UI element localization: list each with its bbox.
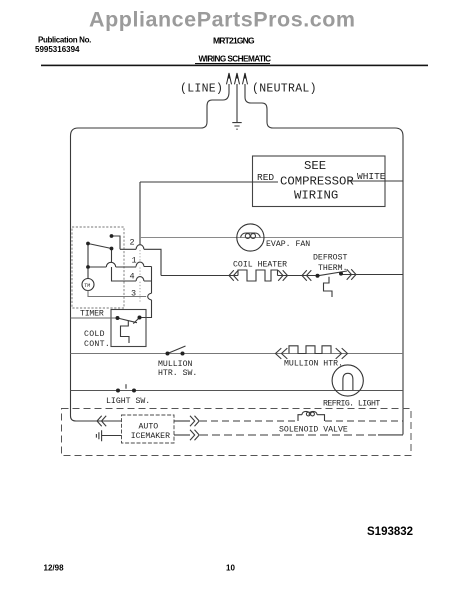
svg-text:MRT21GNG: MRT21GNG (213, 36, 255, 46)
svg-text:3: 3 (131, 289, 136, 299)
svg-text:WIRING SCHEMATIC: WIRING SCHEMATIC (199, 55, 272, 64)
svg-text:TM: TM (84, 283, 90, 289)
svg-text:(LINE): (LINE) (180, 83, 223, 96)
svg-text:MULLION HTR.: MULLION HTR. (284, 360, 343, 369)
svg-text:WHITE: WHITE (357, 171, 386, 182)
svg-text:WIRING: WIRING (294, 189, 338, 203)
svg-text:AppliancePartsPros.com: AppliancePartsPros.com (89, 8, 356, 32)
svg-text:10: 10 (226, 564, 235, 573)
svg-text:ICEMAKER: ICEMAKER (131, 432, 170, 441)
svg-text:SOLENOID VALVE: SOLENOID VALVE (279, 426, 348, 435)
svg-text:DEFROST: DEFROST (313, 254, 347, 263)
svg-text:5995316394: 5995316394 (35, 45, 80, 54)
svg-text:COMPRESSOR: COMPRESSOR (280, 175, 354, 189)
svg-text:REFRIG. LIGHT: REFRIG. LIGHT (323, 400, 380, 409)
svg-text:TIMER: TIMER (80, 310, 104, 319)
svg-text:HTR. SW.: HTR. SW. (158, 369, 197, 378)
svg-text:4: 4 (130, 272, 135, 282)
svg-text:RED: RED (257, 172, 274, 183)
svg-text:1: 1 (132, 256, 137, 266)
svg-text:Publication No.: Publication No. (38, 36, 91, 45)
svg-text:SEE: SEE (304, 159, 326, 173)
svg-text:THERM.: THERM. (318, 264, 347, 273)
svg-text:LIGHT SW.: LIGHT SW. (106, 397, 150, 406)
svg-text:S193832: S193832 (367, 526, 413, 538)
svg-text:COLD: COLD (84, 330, 105, 339)
svg-text:COIL HEATER: COIL HEATER (233, 261, 287, 270)
svg-text:2: 2 (130, 238, 135, 248)
svg-text:(NEUTRAL): (NEUTRAL) (252, 83, 317, 96)
svg-text:EVAP. FAN: EVAP. FAN (266, 240, 310, 249)
svg-text:AUTO: AUTO (139, 423, 159, 432)
svg-text:12/98: 12/98 (44, 564, 65, 573)
svg-text:MULLION: MULLION (158, 360, 192, 369)
svg-text:CONT.: CONT. (84, 340, 110, 349)
